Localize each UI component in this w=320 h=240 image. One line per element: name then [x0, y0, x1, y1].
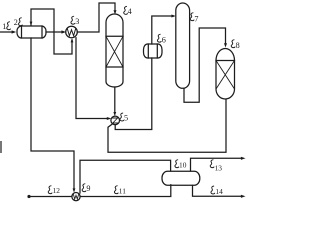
svg-text:9: 9 — [86, 184, 90, 193]
wire V10 top to stream 13 — [191, 158, 243, 171]
P3 impeller W — [67, 29, 75, 36]
scan smudge left edge — [0, 141, 2, 153]
column T7 shell — [176, 3, 190, 88]
wire P3 discharge to column T4 top — [77, 3, 115, 32]
wire stream 1 inlet — [0, 31, 14, 33]
wire E6 top to T7 inlet — [152, 16, 174, 44]
node arrow into P5 left — [107, 117, 111, 120]
vessel V2 horizontal drum — [17, 26, 46, 38]
pump P3 — [66, 26, 78, 38]
svg-text:13: 13 — [215, 164, 223, 173]
wire V2 bottoms down to pump P9 — [31, 38, 74, 190]
node stream 12 dot — [27, 195, 30, 198]
wire column T8 bottoms to P5 bottom-left — [108, 100, 226, 152]
label drum 10 — [175, 160, 179, 168]
wire P5 discharge to exchanger E6 and column T7 — [115, 58, 152, 130]
label pump 3 — [71, 16, 75, 24]
node arrow into P9 top — [73, 188, 76, 192]
T8 packing bed top line — [216, 60, 235, 62]
column T4 shell — [106, 14, 123, 87]
wire P3 bottom branch down to P5 — [76, 38, 109, 119]
svg-text:3: 3 — [75, 17, 79, 26]
node stream 14 arrowhead — [241, 195, 246, 198]
node arrow into P3 left — [61, 30, 66, 33]
label column 7 — [190, 13, 194, 21]
P5 impeller Z — [113, 118, 118, 123]
V2 left head line — [21, 26, 23, 38]
svg-text:14: 14 — [215, 187, 223, 196]
svg-text:7: 7 — [194, 15, 198, 24]
label stream 12 — [48, 186, 52, 194]
label stream 11 — [114, 186, 118, 194]
T4 packing bed bottom line — [106, 66, 123, 68]
node stream 1 arrowhead — [12, 30, 17, 33]
node arrow into T7 wall — [171, 15, 175, 18]
svg-text:1: 1 — [2, 22, 6, 31]
wire V10 bottom to stream 14 — [193, 185, 243, 196]
node stream 13 arrowhead — [241, 157, 246, 160]
T4 packing X — [106, 36, 123, 67]
svg-text:6: 6 — [162, 36, 166, 45]
node arrow into T8 top — [224, 43, 227, 47]
wire V2 to P3 — [46, 31, 64, 33]
svg-text:4: 4 — [128, 7, 132, 16]
label column 4 — [124, 6, 128, 14]
T8 packing X — [216, 61, 235, 90]
label pump 5 — [120, 113, 124, 121]
svg-text:12: 12 — [53, 186, 61, 195]
pump P5 — [111, 116, 120, 125]
node arrow into T4 top — [114, 10, 117, 14]
label pump 9 — [82, 184, 86, 192]
P9 impeller W — [73, 194, 78, 199]
label stream 13 — [210, 160, 214, 168]
node arrow into V2 top — [30, 22, 33, 26]
wire T4 bottom to P5 top — [114, 87, 116, 114]
T4 packing bed top line — [106, 35, 123, 37]
svg-text:10: 10 — [179, 161, 187, 170]
svg-text:8: 8 — [236, 41, 240, 50]
E6 left head line — [147, 44, 149, 58]
wire V2 top riser — [31, 9, 72, 54]
wire T7 bottom to T8 top — [184, 28, 226, 102]
wire bottom feed line into P9 — [29, 196, 72, 198]
node arrow into pump P3 bottom — [71, 38, 74, 42]
svg-text:11: 11 — [119, 187, 126, 196]
node arrow into P5 top — [113, 112, 116, 116]
pump P9 — [72, 193, 80, 201]
drum V10 — [162, 171, 200, 185]
wire P9 to drum V10 bottom-left — [80, 185, 171, 197]
column T8 shell — [216, 49, 235, 100]
label stream 14 — [211, 186, 215, 194]
exchanger E6 drum — [144, 44, 163, 58]
label exchanger 6 — [157, 34, 161, 42]
label column 8 — [231, 40, 235, 48]
svg-text:5: 5 — [124, 114, 128, 123]
E6 right head line — [156, 44, 158, 58]
svg-text:2: 2 — [14, 18, 18, 27]
wire P9 riser to drum V10 top-left — [80, 160, 171, 193]
V2 right head line — [41, 26, 43, 38]
